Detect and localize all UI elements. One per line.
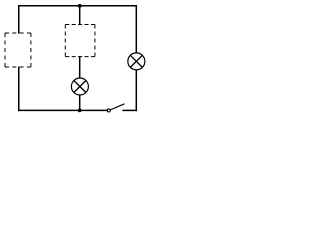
- wire middle vertical from top node to box: [79, 6, 81, 25]
- wire left vertical upper: [18, 5, 20, 34]
- lamp L2 (right): [128, 53, 145, 70]
- wire bottom horizontal left: [18, 109, 107, 111]
- switch S1 contact circle: [107, 109, 110, 112]
- wire bottom horizontal right: [122, 109, 137, 111]
- wire middle vertical lamp to bottom: [79, 95, 81, 111]
- wire middle vertical box to lamp: [79, 56, 81, 78]
- wire right vertical upper: [135, 5, 137, 53]
- dashed box B1 (left component placeholder): [5, 33, 31, 67]
- lamp L1 (middle): [71, 78, 88, 95]
- node junction bottom: [78, 109, 82, 113]
- wire left vertical lower: [18, 67, 20, 112]
- node junction top: [78, 4, 82, 8]
- wire right vertical lower: [135, 70, 137, 112]
- wire top horizontal: [18, 5, 137, 7]
- dashed box B2 (middle component placeholder): [65, 25, 95, 57]
- switch S1 blade: [110, 104, 124, 110]
